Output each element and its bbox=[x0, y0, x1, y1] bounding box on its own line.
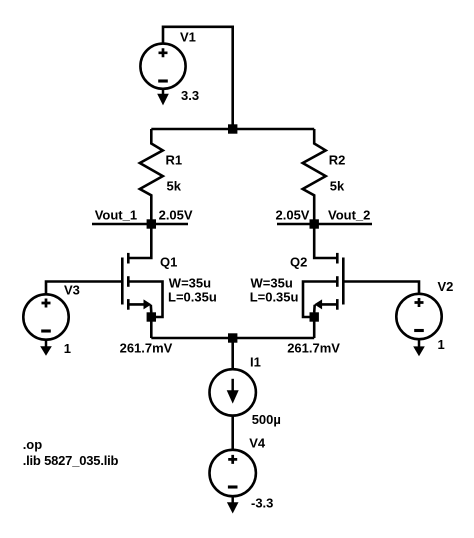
node bottom center junction bbox=[228, 333, 237, 342]
svg-text:R1: R1 bbox=[166, 153, 183, 168]
wire Vout_2 stub bbox=[277, 223, 372, 226]
wire Q1 drain bbox=[128, 224, 151, 258]
plus minus V1 bbox=[158, 48, 168, 81]
svg-text:Vout_1: Vout_1 bbox=[95, 207, 137, 222]
ground arrow V3 bbox=[40, 340, 52, 356]
voltage source V2 bbox=[396, 294, 441, 339]
svg-text:2.05V: 2.05V bbox=[159, 207, 193, 222]
svg-text:2.05V: 2.05V bbox=[276, 207, 310, 222]
node junction top center bbox=[228, 124, 237, 133]
ground arrow V1 bbox=[157, 89, 169, 106]
wire Q2 drain bbox=[314, 224, 337, 258]
svg-text:-3.3: -3.3 bbox=[251, 496, 273, 511]
node Q1 source junction bbox=[147, 312, 156, 321]
node Q2 source junction bbox=[310, 312, 319, 321]
wire I1 to V4 bbox=[231, 416, 234, 450]
ground arrow V4 bbox=[227, 496, 239, 513]
voltage source V3 bbox=[23, 294, 68, 339]
svg-text:Q2: Q2 bbox=[290, 255, 307, 270]
plus minus V4 bbox=[228, 455, 238, 487]
wire Q1 gate to V3 bbox=[46, 282, 122, 295]
svg-text:L=0.35u: L=0.35u bbox=[250, 289, 299, 304]
svg-text:V2: V2 bbox=[438, 279, 454, 294]
svg-text:261.7mV: 261.7mV bbox=[120, 341, 173, 356]
svg-text:V1: V1 bbox=[180, 29, 196, 44]
I1 arrow bbox=[227, 379, 239, 404]
wire Q2 source down bbox=[313, 317, 316, 338]
node Vout_2 junction bbox=[310, 219, 319, 228]
current source I1 bbox=[210, 369, 256, 415]
wire Q1 source down bbox=[150, 317, 153, 338]
svg-text:.op: .op bbox=[23, 437, 43, 452]
svg-text:1: 1 bbox=[438, 337, 445, 352]
wire tail to I1 bbox=[231, 338, 234, 369]
svg-text:I1: I1 bbox=[250, 355, 261, 370]
wire bottom rail bbox=[151, 337, 314, 340]
svg-text:3.3: 3.3 bbox=[181, 88, 199, 103]
svg-text:Vout_2: Vout_2 bbox=[328, 207, 370, 222]
svg-text:500µ: 500µ bbox=[252, 412, 281, 427]
node Vout_1 junction bbox=[147, 219, 156, 228]
plus minus V3 bbox=[41, 299, 51, 332]
transistor Q1 bbox=[122, 253, 162, 317]
wire Vout_1 stub bbox=[92, 223, 188, 226]
svg-text:261.7mV: 261.7mV bbox=[287, 341, 340, 356]
svg-text:.lib 5827_035.lib: .lib 5827_035.lib bbox=[23, 453, 119, 468]
voltage source V1 bbox=[140, 44, 185, 89]
svg-text:5k: 5k bbox=[330, 179, 345, 194]
wire top rail bbox=[151, 128, 314, 131]
resistor R1 bbox=[140, 129, 163, 224]
wire Q2 gate to V2 bbox=[343, 282, 419, 294]
wire V1 top loop bbox=[163, 27, 233, 129]
ground arrow V2 bbox=[413, 339, 425, 356]
transistor Q2 bbox=[303, 253, 343, 317]
plus minus V2 bbox=[414, 298, 424, 331]
svg-text:Q1: Q1 bbox=[160, 255, 177, 270]
svg-text:5k: 5k bbox=[167, 179, 182, 194]
resistor R2 bbox=[303, 129, 326, 224]
svg-text:L=0.35u: L=0.35u bbox=[168, 289, 217, 304]
svg-text:V4: V4 bbox=[249, 436, 266, 451]
svg-text:V3: V3 bbox=[64, 282, 80, 297]
svg-text:R2: R2 bbox=[329, 153, 346, 168]
voltage source V4 bbox=[210, 450, 256, 496]
svg-text:1: 1 bbox=[64, 341, 71, 356]
